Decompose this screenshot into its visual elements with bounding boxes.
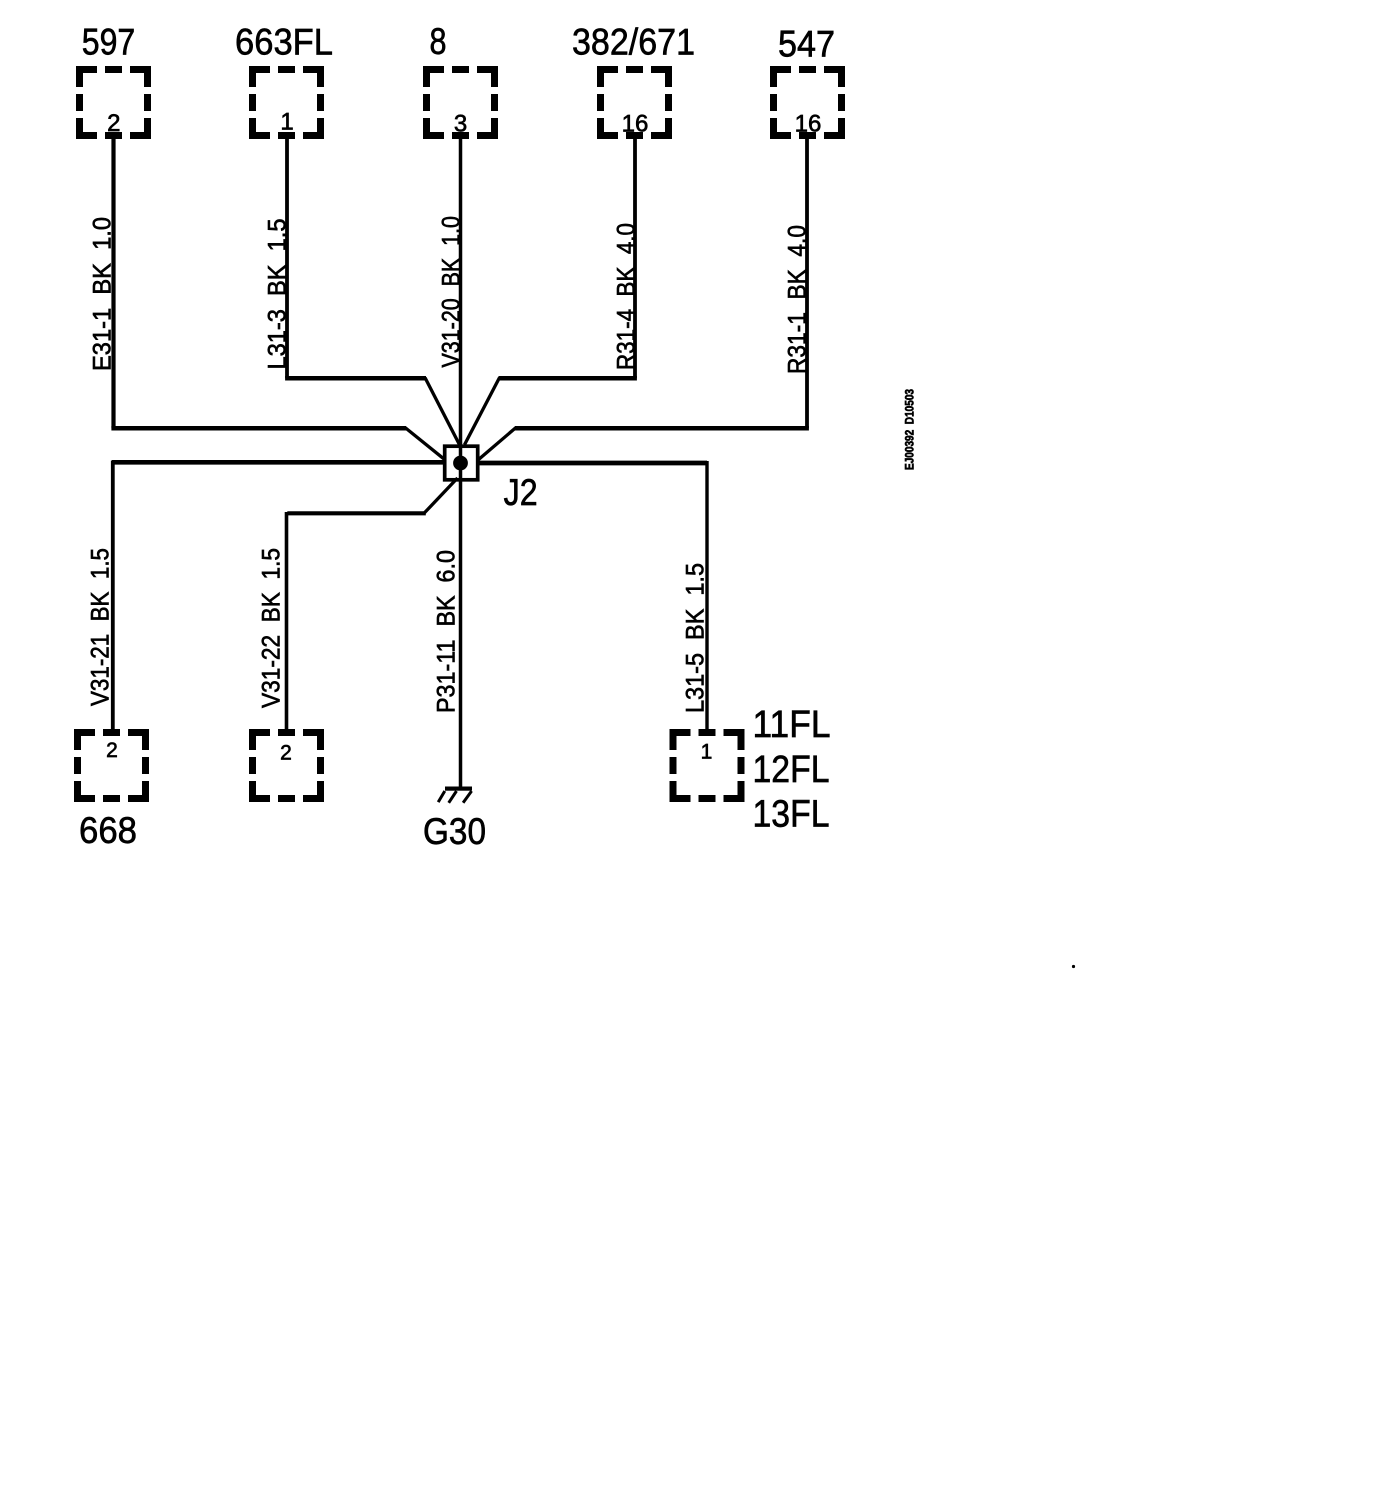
svg-text:8: 8 xyxy=(430,20,447,62)
svg-text:R31-1 BK 4.0: R31-1 BK 4.0 xyxy=(784,225,812,374)
svg-text:L31-3 BK 1.5: L31-3 BK 1.5 xyxy=(264,219,292,370)
svg-text:L31-5 BK 1.5: L31-5 BK 1.5 xyxy=(682,563,710,713)
svg-text:2: 2 xyxy=(106,739,118,762)
svg-text:16: 16 xyxy=(795,111,822,138)
svg-text:12FL: 12FL xyxy=(753,749,830,791)
svg-text:663FL: 663FL xyxy=(235,21,333,63)
svg-text:3: 3 xyxy=(454,111,467,138)
svg-text:G30: G30 xyxy=(423,810,486,852)
svg-text:V31-21 BK 1.5: V31-21 BK 1.5 xyxy=(87,548,115,706)
svg-text:J2: J2 xyxy=(504,471,538,513)
svg-text:597: 597 xyxy=(82,21,136,63)
svg-text:R31-4 BK 4.0: R31-4 BK 4.0 xyxy=(613,223,641,370)
svg-text:V31-20 BK 1.0: V31-20 BK 1.0 xyxy=(438,216,466,368)
svg-text:11FL: 11FL xyxy=(753,704,831,746)
svg-text:2: 2 xyxy=(280,742,292,765)
svg-text:547: 547 xyxy=(778,22,835,64)
svg-text:1: 1 xyxy=(701,741,713,764)
svg-text:13FL: 13FL xyxy=(753,794,830,836)
svg-text:EJ00392 D10503: EJ00392 D10503 xyxy=(905,389,917,470)
svg-text:2: 2 xyxy=(107,110,120,137)
svg-text:P31-11 BK 6.0: P31-11 BK 6.0 xyxy=(433,550,461,713)
svg-text:E31-1 BK 1.0: E31-1 BK 1.0 xyxy=(89,217,117,371)
svg-text:V31-22 BK 1.5: V31-22 BK 1.5 xyxy=(258,548,286,708)
svg-text:16: 16 xyxy=(622,111,649,138)
svg-text:668: 668 xyxy=(79,809,137,851)
svg-text:382/671: 382/671 xyxy=(572,21,695,63)
svg-text:1: 1 xyxy=(280,109,293,136)
